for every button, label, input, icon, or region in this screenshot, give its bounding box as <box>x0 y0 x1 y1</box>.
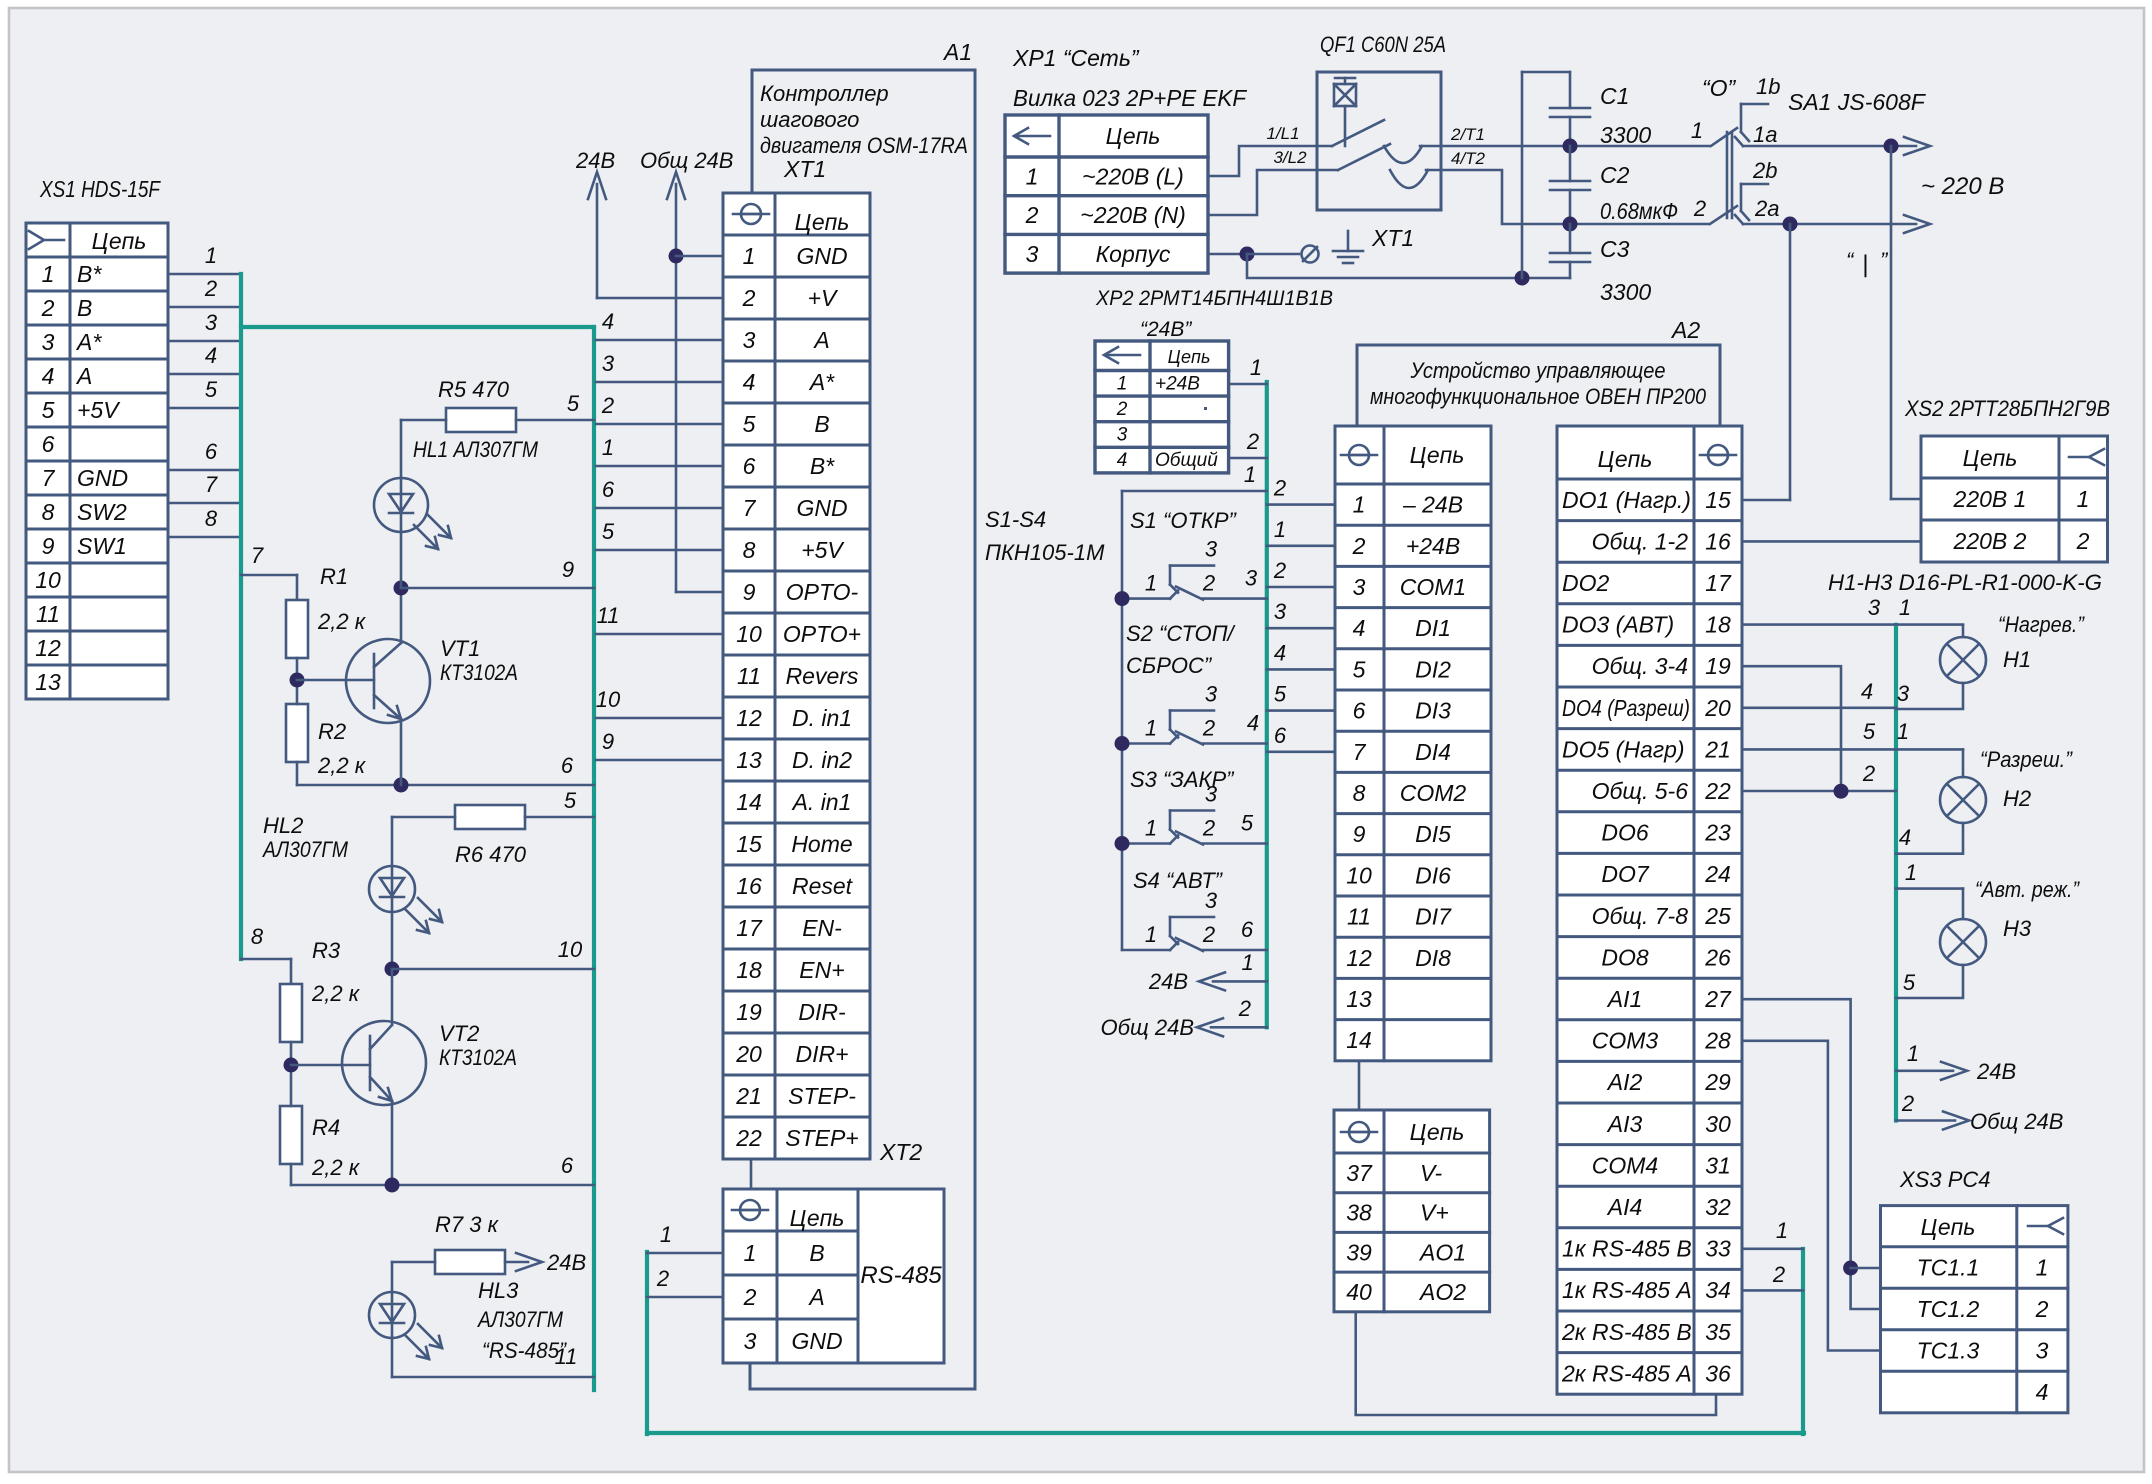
svg-text:COM3: COM3 <box>1592 1028 1659 1054</box>
svg-text:A*: A* <box>75 329 102 355</box>
svg-text:11: 11 <box>737 663 761 689</box>
svg-text:1: 1 <box>2036 1255 2049 1281</box>
svg-text:SW1: SW1 <box>77 533 127 559</box>
svg-text:1: 1 <box>1250 355 1262 380</box>
svg-text:TC1.2: TC1.2 <box>1917 1296 1980 1322</box>
svg-text:27: 27 <box>1704 986 1732 1012</box>
svg-text:15: 15 <box>1705 487 1731 513</box>
svg-text:2: 2 <box>743 1284 757 1310</box>
svg-text:DI3: DI3 <box>1415 698 1451 724</box>
svg-text:2: 2 <box>656 1266 669 1291</box>
svg-text:B*: B* <box>77 261 102 287</box>
svg-text:“Авт. реж.”: “Авт. реж.” <box>1975 877 2080 902</box>
svg-text:Общий: Общий <box>1155 450 1218 471</box>
svg-text:6: 6 <box>42 431 55 457</box>
svg-text:GND: GND <box>77 465 128 491</box>
svg-text:TC1.1: TC1.1 <box>1917 1255 1980 1281</box>
svg-text:DI1: DI1 <box>1415 615 1451 641</box>
svg-text:Revers: Revers <box>786 663 859 689</box>
svg-text:C3: C3 <box>1600 236 1630 262</box>
svg-text:H1-Н3 D16-PL-R1-000-K-G: H1-Н3 D16-PL-R1-000-K-G <box>1828 570 2102 595</box>
svg-text:6: 6 <box>1274 723 1287 748</box>
svg-text:11: 11 <box>36 601 60 627</box>
svg-text:B: B <box>809 1240 824 1266</box>
svg-text:Цепь: Цепь <box>1168 347 1211 367</box>
svg-text:5: 5 <box>743 411 756 437</box>
svg-text:24В: 24В <box>1148 969 1188 994</box>
svg-text:2: 2 <box>204 276 217 301</box>
svg-text:35: 35 <box>1705 1319 1731 1345</box>
svg-text:1: 1 <box>1353 492 1366 518</box>
svg-text:R3: R3 <box>312 938 341 963</box>
svg-text:DI4: DI4 <box>1415 739 1451 765</box>
svg-text:S2 “СТОП/: S2 “СТОП/ <box>1126 621 1236 646</box>
svg-text:2: 2 <box>1238 996 1251 1021</box>
svg-text:DI7: DI7 <box>1415 904 1452 930</box>
svg-text:7: 7 <box>42 465 56 491</box>
svg-text:S4 “АВТ”: S4 “АВТ” <box>1133 868 1224 893</box>
svg-text:B*: B* <box>810 453 835 479</box>
svg-text:2: 2 <box>1693 196 1706 221</box>
svg-text:2: 2 <box>1202 716 1215 741</box>
svg-text:3: 3 <box>1353 574 1366 600</box>
svg-text:1b: 1b <box>1756 74 1780 99</box>
svg-text:R5 470: R5 470 <box>438 377 510 402</box>
svg-text:AI1: AI1 <box>1606 986 1643 1012</box>
svg-text:4: 4 <box>602 309 614 334</box>
svg-text:1: 1 <box>1907 1041 1919 1066</box>
svg-text:23: 23 <box>1704 820 1731 846</box>
svg-text:Цепь: Цепь <box>795 209 850 235</box>
svg-text:21: 21 <box>735 1083 762 1109</box>
svg-text:+5V: +5V <box>77 397 121 423</box>
svg-text:R1: R1 <box>320 564 348 589</box>
svg-text:OPTO+: OPTO+ <box>783 621 861 647</box>
svg-text:2: 2 <box>1246 429 1259 454</box>
svg-text:A: A <box>812 327 829 353</box>
svg-text:DIR+: DIR+ <box>795 1041 848 1067</box>
svg-text:24В: 24В <box>1976 1059 2016 1084</box>
svg-text:DI8: DI8 <box>1415 945 1451 971</box>
svg-text:25: 25 <box>1704 903 1731 929</box>
svg-text:8: 8 <box>205 506 218 531</box>
svg-text:TC1.3: TC1.3 <box>1917 1338 1980 1364</box>
svg-text:2/T1: 2/T1 <box>1450 125 1485 144</box>
svg-text:DO8: DO8 <box>1601 944 1649 970</box>
svg-text:11: 11 <box>555 1344 578 1369</box>
svg-text:10: 10 <box>596 687 621 712</box>
svg-text:220В 2: 220В 2 <box>1953 528 2027 554</box>
svg-text:Цепь: Цепь <box>1963 445 2018 471</box>
svg-text:2: 2 <box>1901 1091 1914 1116</box>
svg-text:5: 5 <box>1903 970 1916 995</box>
svg-text:0.68мкФ: 0.68мкФ <box>1600 198 1678 224</box>
svg-text:Цепь: Цепь <box>1410 1119 1465 1145</box>
svg-text:DI5: DI5 <box>1415 821 1451 847</box>
svg-text:VT1: VT1 <box>440 636 480 661</box>
svg-text:Общ. 1-2: Общ. 1-2 <box>1592 528 1689 554</box>
svg-text:3: 3 <box>1245 566 1258 591</box>
svg-text:|: | <box>1862 251 1868 278</box>
svg-text:32: 32 <box>1705 1194 1731 1220</box>
svg-text:GND: GND <box>796 243 847 269</box>
svg-text:13: 13 <box>1346 986 1372 1012</box>
svg-text:VT2: VT2 <box>439 1021 479 1046</box>
svg-text:+V: +V <box>808 285 839 311</box>
svg-text:2a: 2a <box>1754 196 1779 221</box>
svg-text:8: 8 <box>42 499 55 525</box>
svg-text:1: 1 <box>1145 571 1157 596</box>
svg-text:Н3: Н3 <box>2003 916 2032 941</box>
svg-text:3300: 3300 <box>1600 122 1651 148</box>
svg-text:24В: 24В <box>546 1250 586 1275</box>
svg-text:11: 11 <box>597 603 620 628</box>
svg-text:ПКН105-1М: ПКН105-1М <box>985 540 1105 565</box>
svg-text:6: 6 <box>1241 917 1254 942</box>
svg-text:1: 1 <box>1241 950 1253 975</box>
svg-text:STEP-: STEP- <box>788 1083 856 1109</box>
svg-text:3: 3 <box>1026 241 1039 267</box>
svg-text:1: 1 <box>1117 373 1128 394</box>
svg-text:14: 14 <box>1346 1027 1372 1053</box>
svg-text:HL2: HL2 <box>263 813 303 838</box>
svg-text:~220В (L): ~220В (L) <box>1082 163 1184 189</box>
svg-text:2к RS-485 В: 2к RS-485 В <box>1561 1319 1692 1345</box>
svg-text:D. in1: D. in1 <box>792 705 852 731</box>
svg-text:9: 9 <box>602 729 614 754</box>
svg-text:5: 5 <box>42 397 55 423</box>
svg-text:24: 24 <box>1704 861 1731 887</box>
svg-text:2: 2 <box>742 285 756 311</box>
svg-text:QF1 C60N 25А: QF1 C60N 25А <box>1320 32 1446 57</box>
svg-text:1к RS-485 А: 1к RS-485 А <box>1562 1277 1692 1303</box>
svg-text:22: 22 <box>1704 778 1731 804</box>
svg-text:2: 2 <box>1025 202 1039 228</box>
svg-text:R2: R2 <box>318 719 346 744</box>
svg-text:R4: R4 <box>312 1115 340 1140</box>
svg-text:Цепь: Цепь <box>790 1205 845 1231</box>
svg-text:AI2: AI2 <box>1606 1069 1643 1095</box>
svg-text:EN+: EN+ <box>799 957 844 983</box>
svg-text:220В 1: 220В 1 <box>1953 486 2027 512</box>
svg-text:Общ. 5-6: Общ. 5-6 <box>1592 778 1689 804</box>
svg-text:“О”: “О” <box>1702 75 1737 101</box>
svg-text:2b: 2b <box>1752 158 1777 183</box>
svg-text:1: 1 <box>744 1240 757 1266</box>
svg-text:21: 21 <box>1704 736 1731 762</box>
svg-text:12: 12 <box>35 635 61 661</box>
svg-text:D. in2: D. in2 <box>792 747 852 773</box>
svg-text:Общ 24В: Общ 24В <box>1970 1109 2063 1134</box>
svg-text:26: 26 <box>1704 944 1731 970</box>
svg-text:COM1: COM1 <box>1400 574 1466 600</box>
svg-text:19: 19 <box>736 999 762 1025</box>
svg-text:R6 470: R6 470 <box>455 842 527 867</box>
svg-text:A1: A1 <box>942 39 972 65</box>
svg-text:8: 8 <box>743 537 756 563</box>
svg-text:2: 2 <box>1862 761 1875 786</box>
svg-text:2: 2 <box>1202 571 1215 596</box>
svg-text:1: 1 <box>1897 719 1909 744</box>
svg-text:5: 5 <box>1863 719 1876 744</box>
svg-text:9: 9 <box>562 557 574 582</box>
svg-text:17: 17 <box>736 915 763 941</box>
svg-text:31: 31 <box>1705 1152 1731 1178</box>
svg-text:3: 3 <box>1117 425 1128 446</box>
svg-text:HL1 АЛ307ГМ: HL1 АЛ307ГМ <box>413 437 539 462</box>
svg-text:+24В: +24В <box>1406 533 1460 559</box>
svg-text:XT1: XT1 <box>783 156 826 182</box>
svg-text:6: 6 <box>205 439 218 464</box>
svg-text:18: 18 <box>736 957 762 983</box>
svg-text:12: 12 <box>1346 945 1372 971</box>
svg-text:“Нагрев.”: “Нагрев.” <box>1998 612 2085 637</box>
svg-text:4: 4 <box>1861 679 1873 704</box>
svg-text:GND: GND <box>796 495 847 521</box>
svg-text:4/T2: 4/T2 <box>1451 149 1486 168</box>
svg-text:1: 1 <box>1776 1218 1788 1243</box>
svg-text:XT1: XT1 <box>1371 225 1414 251</box>
svg-text:XP1 “Сеть”: XP1 “Сеть” <box>1012 45 1140 71</box>
svg-text:9: 9 <box>1353 821 1366 847</box>
svg-text:2к RS-485 А: 2к RS-485 А <box>1561 1360 1692 1386</box>
svg-text:АЛ307ГМ: АЛ307ГМ <box>476 1307 563 1332</box>
svg-text:RS-485: RS-485 <box>860 1262 942 1289</box>
svg-text:10: 10 <box>35 567 61 593</box>
svg-text:1: 1 <box>42 261 55 287</box>
svg-text:A2: A2 <box>1670 317 1700 343</box>
svg-text:2,2 к: 2,2 к <box>311 1155 361 1180</box>
svg-text:3: 3 <box>743 327 756 353</box>
svg-text:2: 2 <box>2035 1296 2049 1322</box>
svg-text:~ 220 В: ~ 220 В <box>1921 173 2004 200</box>
svg-text:22: 22 <box>735 1125 762 1151</box>
svg-text:COM4: COM4 <box>1592 1152 1658 1178</box>
svg-text:EN-: EN- <box>802 915 842 941</box>
svg-text:39: 39 <box>1346 1239 1372 1265</box>
svg-text:34: 34 <box>1705 1277 1731 1303</box>
svg-text:7: 7 <box>1353 739 1367 765</box>
svg-text:“Разреш.”: “Разреш.” <box>1980 747 2074 772</box>
svg-text:40: 40 <box>1346 1279 1372 1305</box>
svg-text:3: 3 <box>2036 1338 2049 1364</box>
svg-text:+5V: +5V <box>801 537 845 563</box>
svg-text:8: 8 <box>1353 780 1366 806</box>
svg-text:SW2: SW2 <box>77 499 127 525</box>
svg-text:C2: C2 <box>1600 162 1630 188</box>
svg-text:1: 1 <box>2077 486 2090 512</box>
svg-text:37: 37 <box>1346 1160 1373 1186</box>
svg-text:4: 4 <box>1274 640 1286 665</box>
svg-text:2: 2 <box>1116 399 1128 420</box>
svg-text:3: 3 <box>1868 595 1881 620</box>
svg-text:Общ 24В: Общ 24В <box>1101 1015 1194 1040</box>
svg-text:V+: V+ <box>1420 1200 1449 1226</box>
svg-text:20: 20 <box>1704 695 1731 721</box>
svg-text:DO3 (АВТ): DO3 (АВТ) <box>1562 612 1674 638</box>
svg-text:Reset: Reset <box>792 873 854 899</box>
svg-text:СБРОС”: СБРОС” <box>1126 653 1213 678</box>
svg-text:Цепь: Цепь <box>1598 446 1653 472</box>
svg-text:2: 2 <box>1273 558 1286 583</box>
svg-text:1: 1 <box>1026 163 1039 189</box>
svg-text:“24В”: “24В” <box>1140 318 1192 341</box>
svg-text:6: 6 <box>602 477 615 502</box>
svg-text:4: 4 <box>1247 711 1259 736</box>
svg-text:Общ 24В: Общ 24В <box>640 148 733 173</box>
svg-text:S3 “ЗАКР”: S3 “ЗАКР” <box>1130 767 1235 792</box>
svg-text:1: 1 <box>205 243 217 268</box>
svg-text:1/L1: 1/L1 <box>1266 124 1299 143</box>
svg-text:16: 16 <box>736 873 762 899</box>
svg-text:5: 5 <box>1241 811 1254 836</box>
svg-text:SA1 JS-608F: SA1 JS-608F <box>1788 89 1927 115</box>
svg-text:S1-S4: S1-S4 <box>985 507 1046 532</box>
svg-text:DO4 (Разреш): DO4 (Разреш) <box>1562 695 1690 721</box>
svg-text:A: A <box>807 1284 824 1310</box>
svg-text:28: 28 <box>1704 1028 1731 1054</box>
svg-text:DO1 (Нагр.): DO1 (Нагр.) <box>1562 487 1691 513</box>
svg-text:многофункциональное ОВЕН ПР200: многофункциональное ОВЕН ПР200 <box>1370 384 1707 409</box>
svg-text:DO2: DO2 <box>1562 570 1610 596</box>
svg-text:10: 10 <box>736 621 762 647</box>
svg-text:S1 “ОТКР”: S1 “ОТКР” <box>1130 508 1238 533</box>
svg-text:4: 4 <box>2036 1379 2049 1405</box>
svg-text:3: 3 <box>1205 682 1218 707</box>
svg-text:12: 12 <box>736 705 762 731</box>
svg-text:GND: GND <box>791 1328 842 1354</box>
svg-text:Цепь: Цепь <box>1106 123 1161 149</box>
svg-text:29: 29 <box>1704 1069 1731 1095</box>
svg-text:2,2 к: 2,2 к <box>317 609 367 634</box>
svg-text:2: 2 <box>1202 922 1215 947</box>
svg-text:2: 2 <box>1772 1262 1785 1287</box>
svg-text:5: 5 <box>1274 682 1287 707</box>
svg-text:HL3: HL3 <box>478 1278 519 1303</box>
svg-text:2: 2 <box>1273 476 1286 501</box>
svg-text:8: 8 <box>251 924 264 949</box>
svg-text:1к RS-485 В: 1к RS-485 В <box>1562 1236 1692 1262</box>
svg-text:DI6: DI6 <box>1415 862 1451 888</box>
svg-text:1: 1 <box>1145 922 1157 947</box>
svg-text:R7 3 к: R7 3 к <box>435 1212 500 1237</box>
svg-text:DO6: DO6 <box>1601 820 1649 846</box>
svg-text:STEP+: STEP+ <box>785 1125 859 1151</box>
svg-text:5: 5 <box>564 788 577 813</box>
svg-text:DIR-: DIR- <box>798 999 846 1025</box>
svg-text:A*: A* <box>808 369 835 395</box>
svg-text:10: 10 <box>1346 862 1372 888</box>
svg-text:DO5 (Нагр): DO5 (Нагр) <box>1562 736 1685 762</box>
svg-text:30: 30 <box>1705 1111 1731 1137</box>
svg-text:Цепь: Цепь <box>1410 442 1465 468</box>
svg-text:двигателя OSM-17RA: двигателя OSM-17RA <box>760 133 968 158</box>
svg-text:2,2 к: 2,2 к <box>311 981 361 1006</box>
svg-text:6: 6 <box>561 1153 574 1178</box>
svg-text:AI4: AI4 <box>1606 1194 1643 1220</box>
svg-text:Корпус: Корпус <box>1096 241 1171 267</box>
svg-text:1: 1 <box>743 243 756 269</box>
svg-text:XT2: XT2 <box>879 1139 922 1165</box>
svg-text:4: 4 <box>1353 615 1366 641</box>
svg-text:1a: 1a <box>1753 122 1777 147</box>
svg-text:11: 11 <box>1347 904 1371 930</box>
svg-text:+24В: +24В <box>1155 373 1200 394</box>
svg-text:7: 7 <box>251 543 264 568</box>
svg-text:10: 10 <box>558 937 583 962</box>
svg-text:2: 2 <box>601 393 614 418</box>
svg-text:6: 6 <box>743 453 756 479</box>
svg-text:Цепь: Цепь <box>1921 1214 1976 1240</box>
svg-text:1: 1 <box>1899 595 1911 620</box>
svg-text:38: 38 <box>1346 1200 1372 1226</box>
svg-text:2: 2 <box>41 295 55 321</box>
svg-text:AO2: AO2 <box>1418 1279 1466 1305</box>
svg-text:DI2: DI2 <box>1415 656 1451 682</box>
svg-text:– 24В: – 24В <box>1402 492 1463 518</box>
svg-text:3300: 3300 <box>1600 279 1651 305</box>
svg-text:19: 19 <box>1705 653 1731 679</box>
svg-text:1: 1 <box>1244 462 1256 487</box>
svg-text:V-: V- <box>1420 1160 1442 1186</box>
svg-text:7: 7 <box>743 495 757 521</box>
svg-text:ХР2 2РМТ14БПН4Ш1В1В: ХР2 2РМТ14БПН4Ш1В1В <box>1095 287 1333 310</box>
svg-text:15: 15 <box>736 831 762 857</box>
svg-text:DO7: DO7 <box>1601 861 1650 887</box>
svg-text:2,2 к: 2,2 к <box>317 753 367 778</box>
svg-text:5: 5 <box>205 377 218 402</box>
svg-text:Home: Home <box>791 831 852 857</box>
svg-text:A: A <box>75 363 92 389</box>
svg-text:4: 4 <box>42 363 55 389</box>
svg-text:1: 1 <box>1145 816 1157 841</box>
svg-text:13: 13 <box>35 669 61 695</box>
svg-text:6: 6 <box>561 753 574 778</box>
svg-text:13: 13 <box>736 747 762 773</box>
svg-text:B: B <box>77 295 92 321</box>
svg-text:шагового: шагового <box>760 107 859 132</box>
svg-text:5: 5 <box>602 519 615 544</box>
svg-text:4: 4 <box>743 369 756 395</box>
svg-text:2: 2 <box>1202 816 1215 841</box>
svg-text:33: 33 <box>1705 1236 1731 1262</box>
svg-text:3: 3 <box>205 310 218 335</box>
svg-text:1: 1 <box>1691 118 1703 143</box>
svg-text:Контроллер: Контроллер <box>760 81 889 106</box>
svg-text:XS3 РС4: XS3 РС4 <box>1899 1167 1991 1192</box>
svg-text:4: 4 <box>1899 825 1911 850</box>
svg-text:3/L2: 3/L2 <box>1273 148 1307 167</box>
svg-text:3: 3 <box>42 329 55 355</box>
svg-text:17: 17 <box>1705 570 1732 596</box>
svg-text:14: 14 <box>736 789 762 815</box>
svg-text:7: 7 <box>205 472 218 497</box>
svg-text:20: 20 <box>735 1041 762 1067</box>
svg-text:A. in1: A. in1 <box>791 789 852 815</box>
svg-text:1: 1 <box>1905 860 1917 885</box>
svg-text:AI3: AI3 <box>1606 1111 1643 1137</box>
svg-text:Н1: Н1 <box>2003 647 2031 672</box>
svg-text:5: 5 <box>1353 656 1366 682</box>
svg-text:COM2: COM2 <box>1400 780 1467 806</box>
svg-text:1: 1 <box>660 1222 672 1247</box>
svg-text:Вилка 023 2P+PE EKF: Вилка 023 2P+PE EKF <box>1013 85 1248 111</box>
svg-text:1: 1 <box>602 435 614 460</box>
svg-text:36: 36 <box>1705 1360 1731 1386</box>
svg-text:9: 9 <box>743 579 756 605</box>
svg-text:OPTO-: OPTO- <box>786 579 859 605</box>
svg-text:АЛ307ГМ: АЛ307ГМ <box>261 837 348 862</box>
